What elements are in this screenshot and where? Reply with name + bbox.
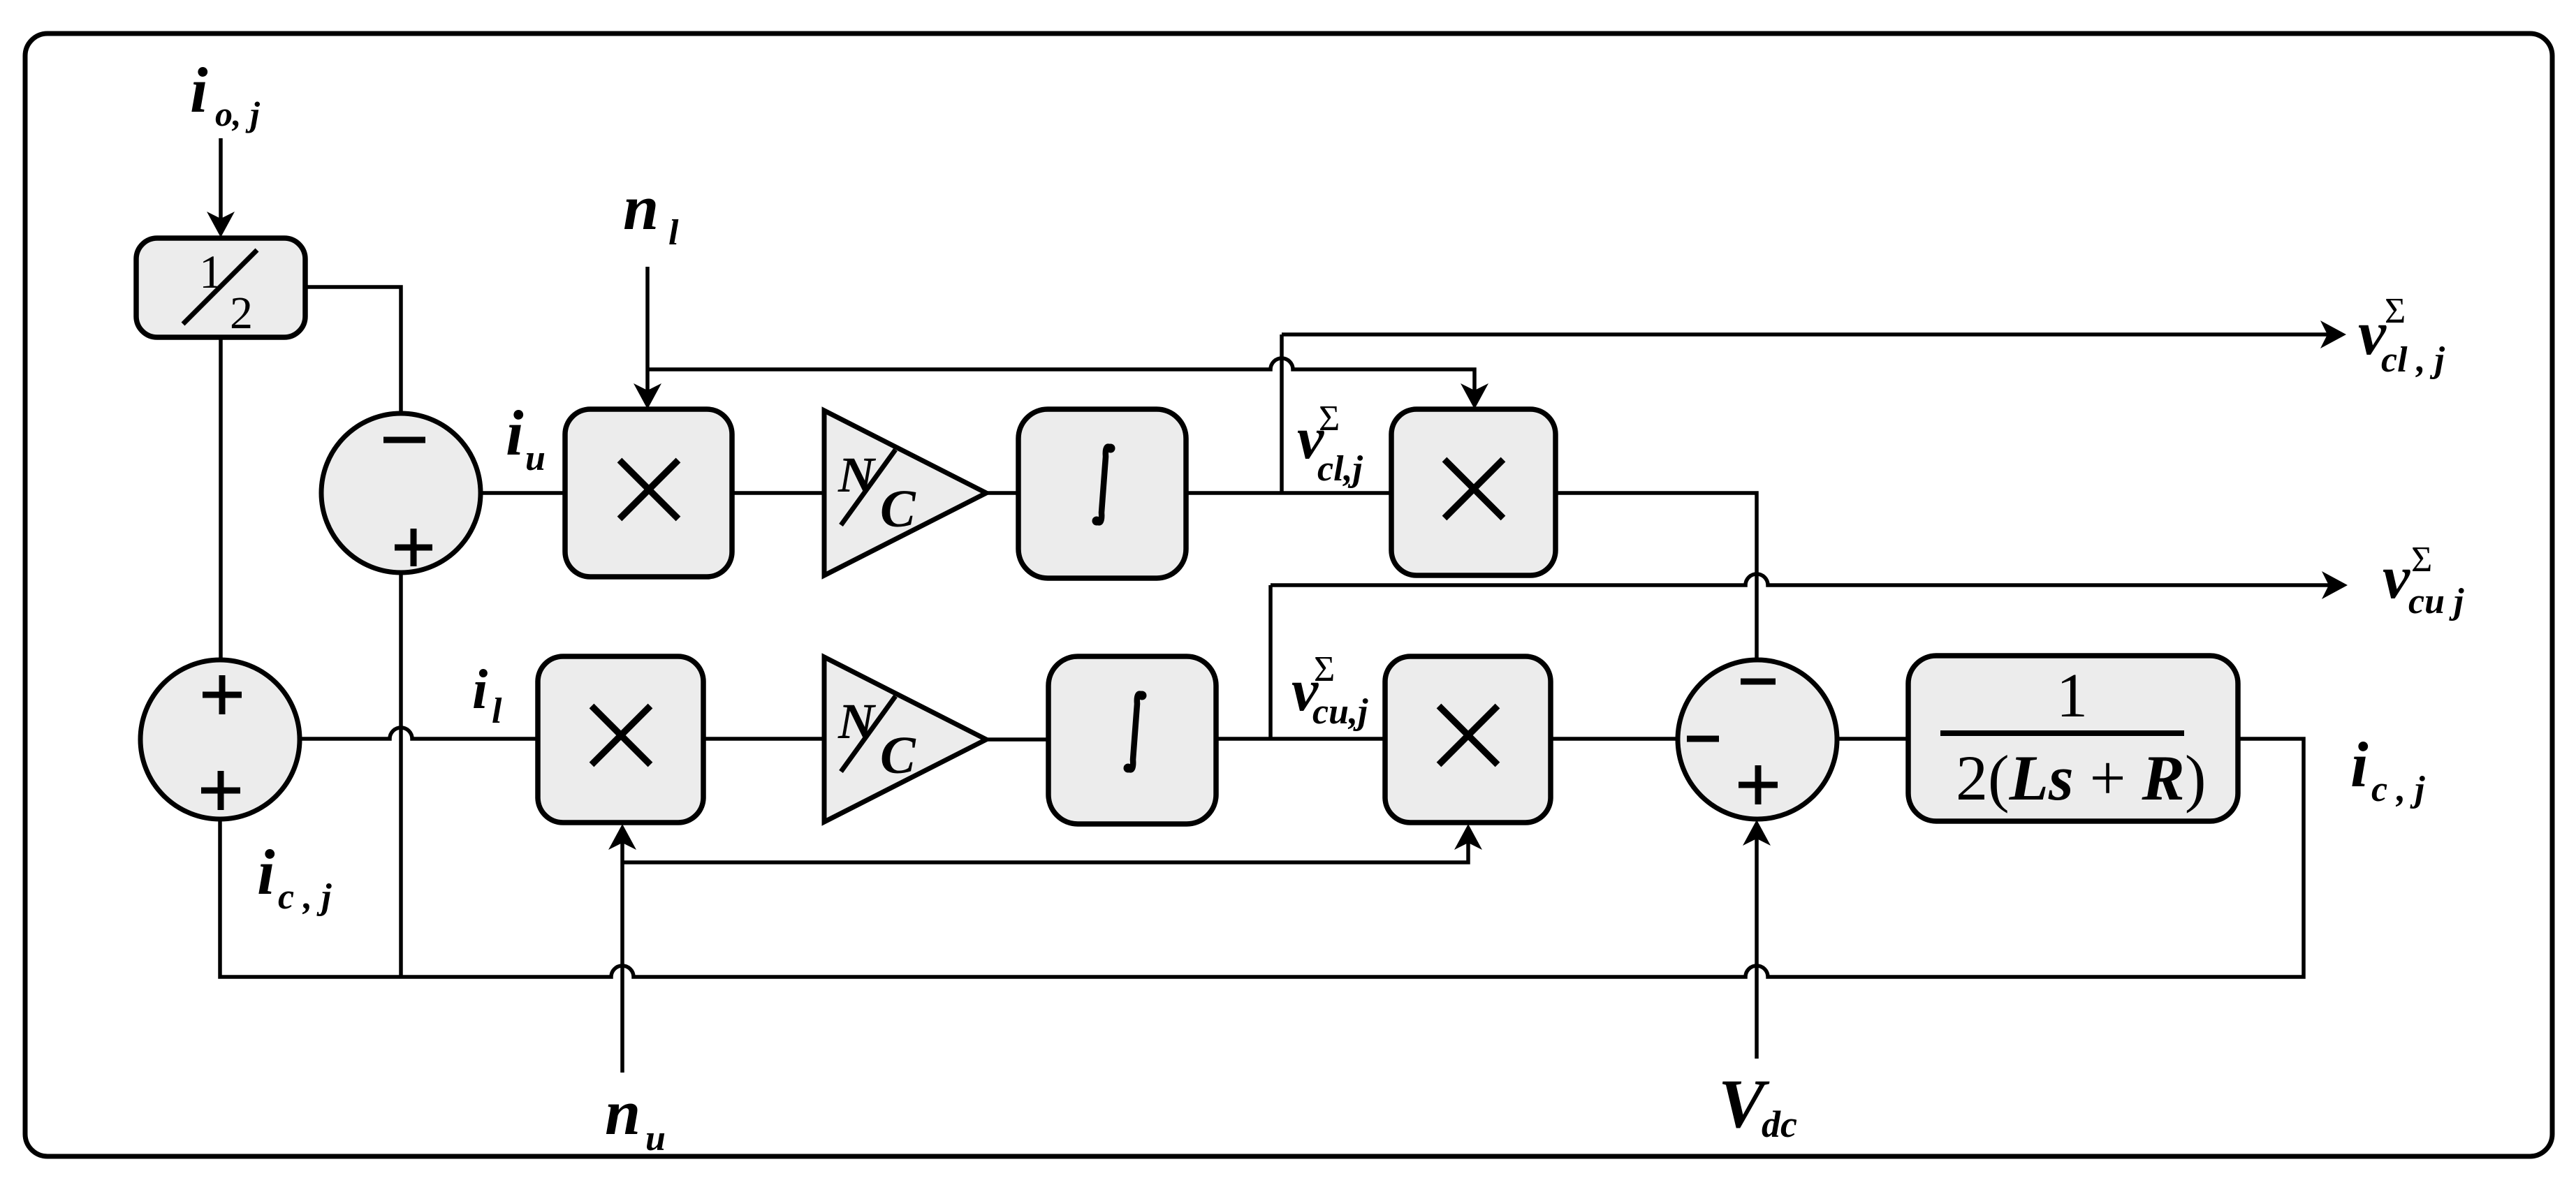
svg-text:l: l: [668, 213, 679, 253]
wire G1 to I1: [985, 491, 1021, 495]
wire n_l into M1 top: [634, 267, 661, 409]
svg-text:2(Ls + R): 2(Ls + R): [1956, 742, 2207, 813]
svg-text:i: i: [190, 54, 208, 126]
block U1 gain 1/2: [136, 238, 305, 339]
wire I1 output to M2: [1186, 491, 1394, 495]
node v_cl,j junction riser: [1280, 334, 1284, 493]
label v_cu,j node: [1291, 649, 1368, 732]
label i_c,j feedback: [257, 837, 332, 917]
wire n_u branch to M4 bottom: [622, 824, 1482, 862]
svg-text:Σ: Σ: [1314, 649, 1335, 689]
node v_cu,j junction riser: [1268, 585, 1273, 739]
svg-text:i: i: [506, 397, 524, 469]
gain G1 N/C: [824, 411, 986, 575]
label n_u: [605, 1077, 666, 1158]
label i_u: [506, 397, 546, 478]
svg-text:o, j: o, j: [215, 94, 261, 133]
wire M4 output to S3 left minus input: [1551, 737, 1681, 741]
gain G2 N/C: [824, 657, 986, 822]
wire U2 output feedback i_c,j: [220, 739, 2304, 977]
svg-text:cu j: cu j: [2408, 582, 2464, 621]
wire i_o,j input arrow: [207, 138, 235, 237]
svg-text:N: N: [837, 447, 877, 503]
wire S1 output i_u to M1: [479, 491, 567, 495]
integrator I1: [1018, 409, 1186, 578]
svg-text:cu,j: cu,j: [1312, 692, 1368, 732]
wire U1 output to S1 minus input: [305, 287, 401, 418]
svg-text:i: i: [472, 659, 488, 721]
svg-text:i: i: [257, 837, 275, 908]
wire S2 output i_l to M3: [298, 728, 540, 739]
wire M1 to G1: [732, 491, 827, 495]
label i_l: [472, 659, 502, 731]
svg-text:cl , j: cl , j: [2381, 340, 2445, 380]
svg-text:cl,j: cl,j: [1317, 449, 1363, 489]
wire feedback riser to S1 plus input: [399, 571, 403, 977]
svg-text:c , j: c , j: [2371, 770, 2425, 809]
svg-text:1: 1: [2056, 661, 2088, 730]
multiplier M3: [538, 656, 703, 823]
label v_cl,j node: [1297, 399, 1363, 489]
svg-text:Σ: Σ: [2385, 291, 2406, 331]
label V_dc: [1718, 1065, 1797, 1145]
svg-text:Σ: Σ: [1319, 399, 1340, 439]
wire I2 output to M4: [1216, 737, 1388, 741]
wire v_cu,j output arrow: [1271, 571, 2348, 599]
wire V_dc into S3 plus input: [1743, 820, 1771, 1059]
svg-text:v: v: [2383, 544, 2410, 612]
svg-text:u: u: [525, 439, 546, 478]
wire v_cl,j output arrow: [1282, 321, 2346, 348]
wire S3 output to U2: [1836, 737, 1911, 741]
multiplier M1: [565, 409, 732, 577]
svg-text:u: u: [645, 1119, 666, 1158]
wire G2 to I2: [985, 737, 1051, 742]
block U2 transfer function 1/(2(Ls+R)): [1908, 656, 2238, 821]
svg-text:c , j: c , j: [278, 877, 332, 917]
label v_cl,j output: [2358, 291, 2445, 380]
svg-text:n: n: [605, 1077, 641, 1148]
integrator I2: [1048, 656, 1216, 824]
label i_o,j: [190, 54, 261, 133]
label v_cu,j output: [2383, 540, 2464, 621]
svg-text:l: l: [492, 691, 502, 731]
svg-text:C: C: [880, 480, 916, 538]
svg-text:2: 2: [230, 288, 253, 339]
wire M3 to G2: [703, 737, 827, 741]
svg-text:i: i: [2350, 729, 2369, 800]
label n_l: [623, 172, 679, 253]
wire n_l branch to M2 top: [647, 358, 1488, 409]
summing junction S1: [321, 413, 481, 573]
summing junction S2: [140, 660, 300, 819]
multiplier M2: [1391, 409, 1556, 575]
svg-text:C: C: [880, 726, 916, 785]
wire n_u into M3 bottom: [608, 824, 636, 1073]
svg-text:N: N: [837, 693, 877, 749]
summing junction S3: [1678, 660, 1837, 819]
svg-text:dc: dc: [1762, 1103, 1797, 1145]
label i_c,j output: [2350, 729, 2425, 809]
multiplier M4: [1385, 656, 1551, 823]
svg-text:n: n: [623, 172, 659, 243]
wire U1 output down to S2 plus input: [219, 337, 223, 663]
wire M2 output to S3 minus input: [1556, 493, 1757, 663]
svg-text:Σ: Σ: [2411, 540, 2432, 580]
